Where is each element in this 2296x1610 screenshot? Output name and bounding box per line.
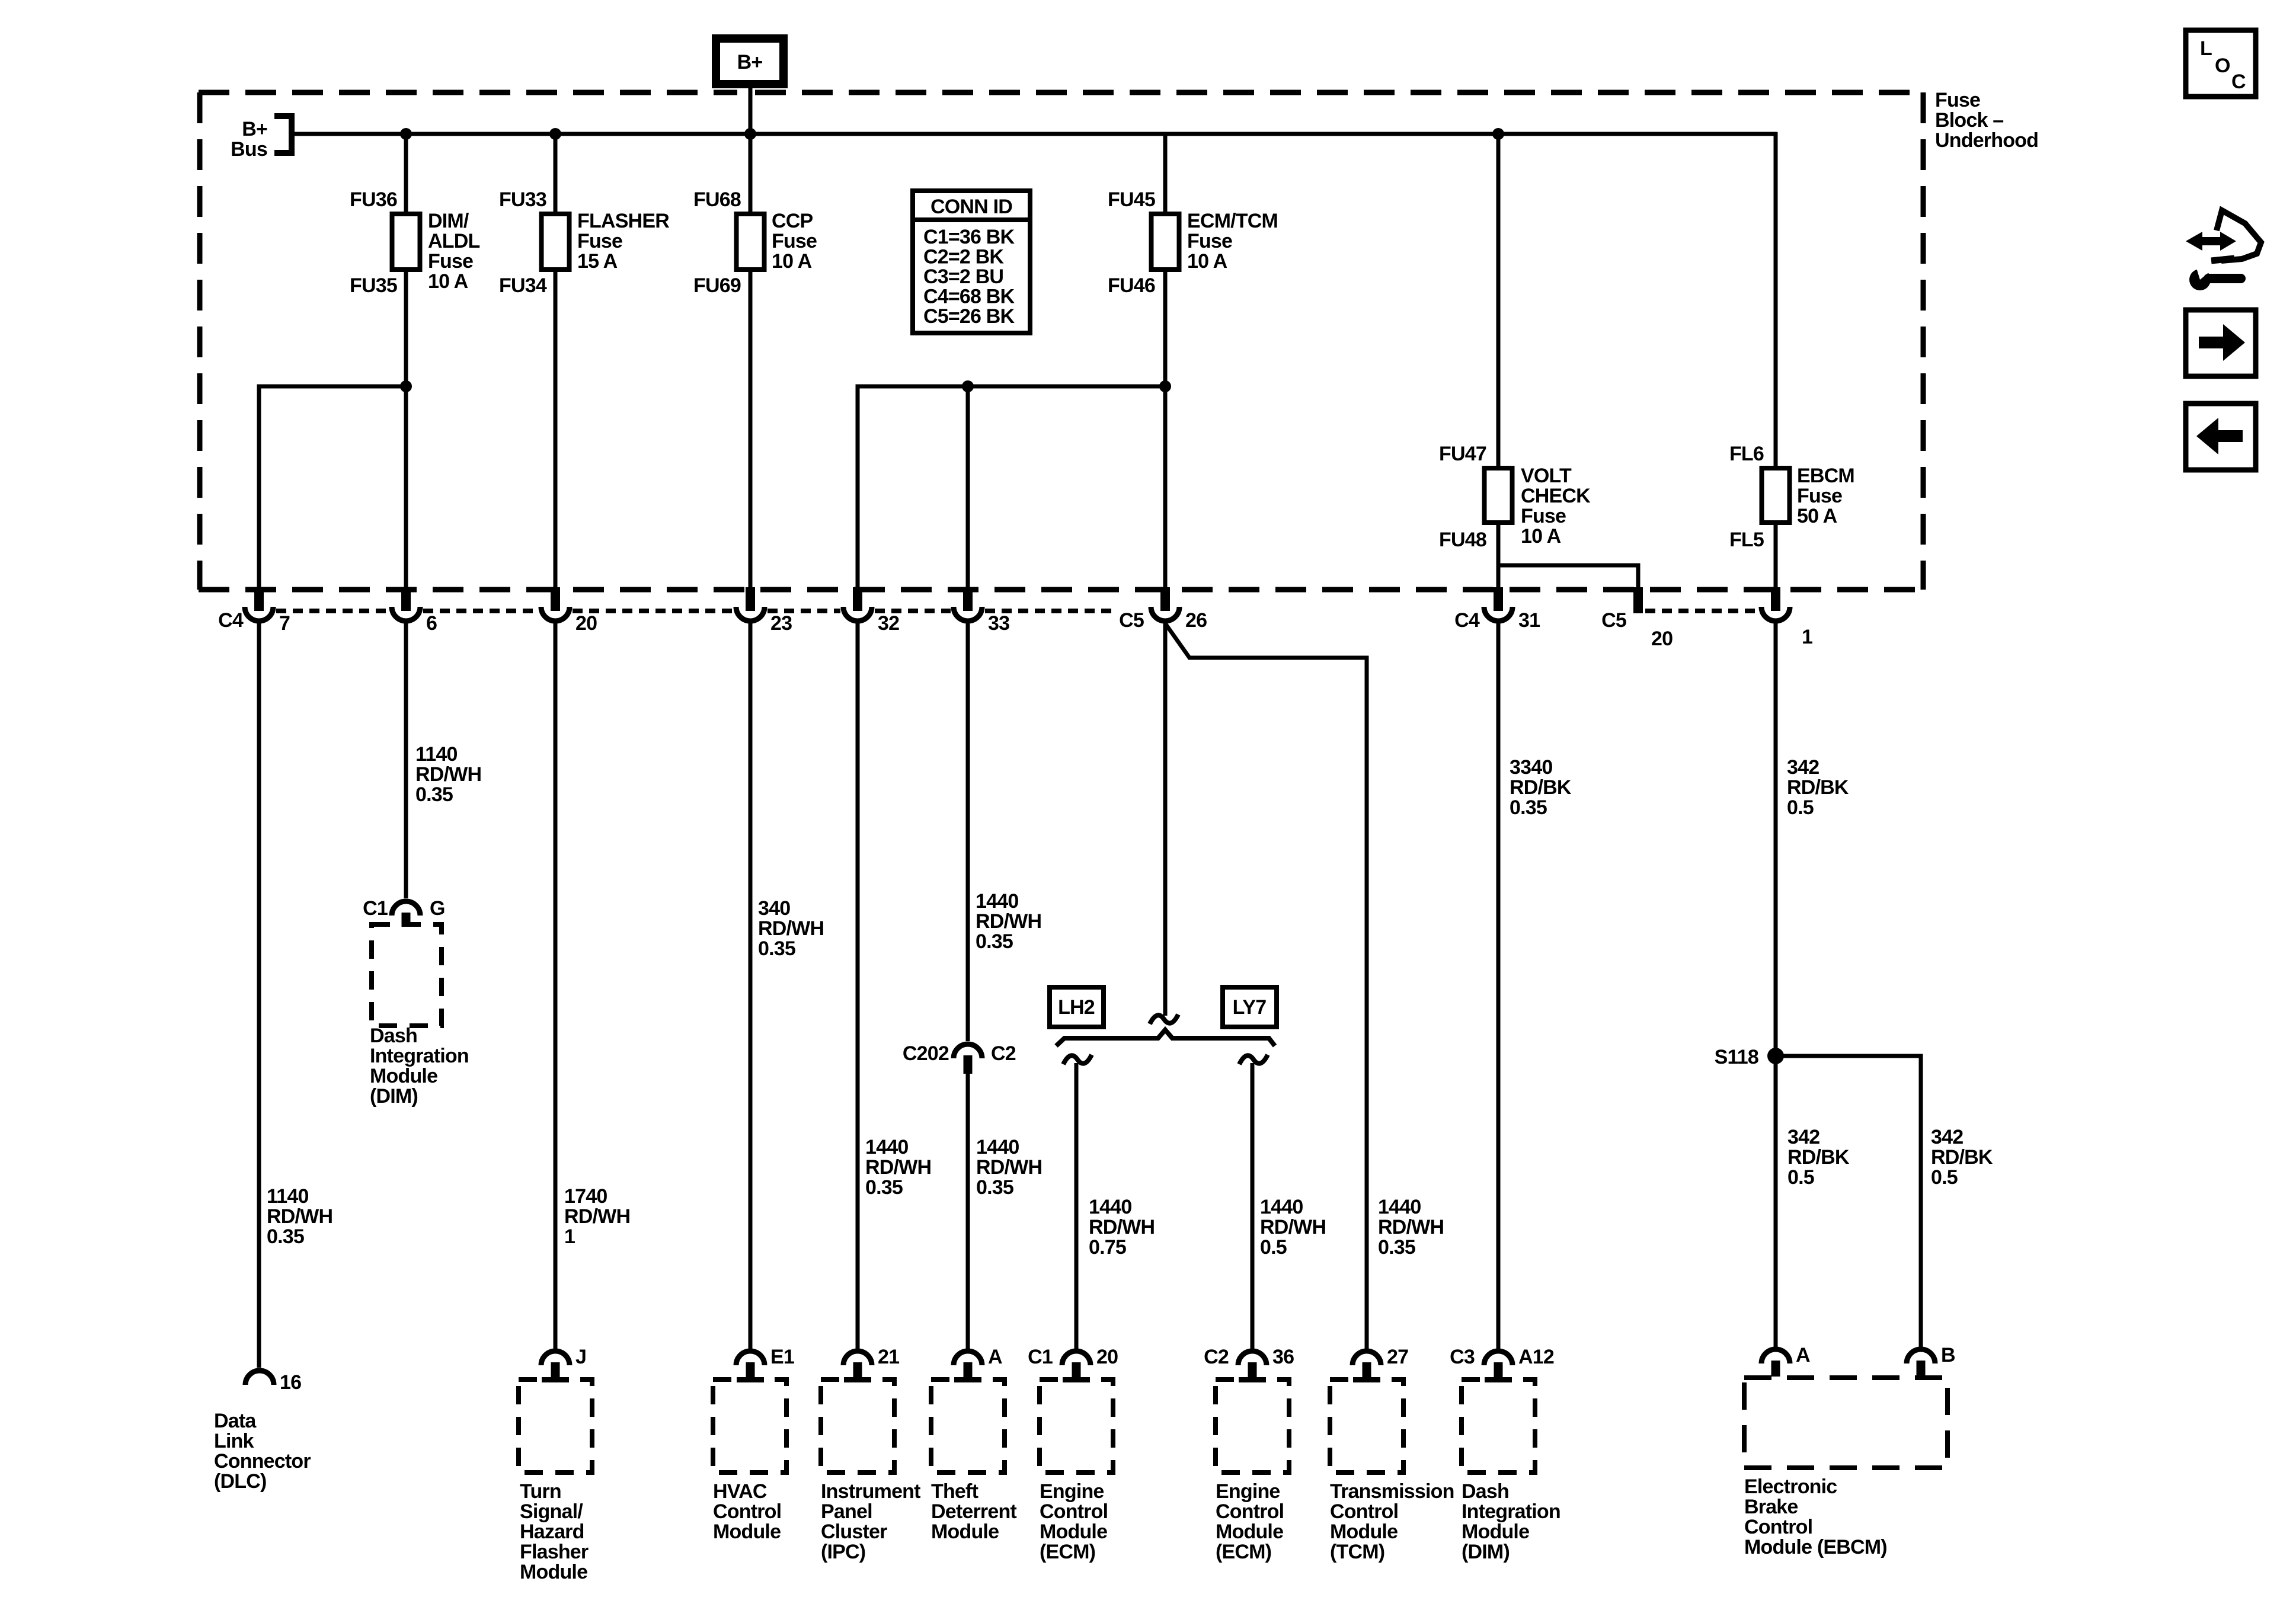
wire pin 33 riser bbox=[966, 386, 970, 590]
module Instrument Panel Cluster (IPC) dashed box bbox=[821, 1379, 894, 1473]
svg-text:C4: C4 bbox=[1454, 609, 1480, 632]
svg-text:Module: Module bbox=[713, 1521, 781, 1543]
svg-text:RD/WH: RD/WH bbox=[758, 917, 824, 940]
svg-text:ECM/TCM: ECM/TCM bbox=[1187, 210, 1278, 232]
fuse FU33/FU34 FLASHER 15 A bbox=[542, 214, 570, 270]
node junction FU46/IPC branch bbox=[1159, 380, 1171, 392]
svg-text:Transmission: Transmission bbox=[1330, 1480, 1454, 1503]
connector C5 pin 20 stub bbox=[1633, 587, 1643, 613]
wire S118 branch to pin B bbox=[1776, 1056, 1921, 1350]
connector C1 pin G bbox=[392, 901, 420, 916]
svg-text:C2: C2 bbox=[991, 1042, 1016, 1065]
wire connector C4 dashed id line bbox=[276, 609, 1114, 613]
wire pin 1 to S118 bbox=[1774, 621, 1778, 1350]
svg-text:Module: Module bbox=[1040, 1521, 1107, 1543]
module HVAC Control Module dashed box bbox=[713, 1379, 786, 1473]
svg-text:Bus: Bus bbox=[231, 138, 267, 161]
icon vehicle with wrench bbox=[2217, 210, 2261, 261]
wire pin 7 to DLC pin 16 bbox=[257, 621, 261, 1368]
svg-text:Fuse: Fuse bbox=[1935, 89, 1980, 111]
connector pin E1 bbox=[736, 1351, 765, 1365]
svg-text:Fuse: Fuse bbox=[772, 230, 817, 252]
svg-text:C1=36 BK: C1=36 BK bbox=[923, 226, 1015, 248]
option label LH2 box bbox=[1050, 987, 1104, 1027]
svg-text:0.35: 0.35 bbox=[976, 930, 1013, 953]
splice S118 bbox=[1767, 1048, 1784, 1064]
svg-text:10 A: 10 A bbox=[772, 250, 812, 273]
svg-text:VOLT: VOLT bbox=[1521, 465, 1572, 487]
wire bus to fuse FU68 bbox=[749, 134, 753, 214]
svg-text:C4: C4 bbox=[218, 609, 244, 632]
fuse FU36/FU35 DIM/ALDL 10 A bbox=[392, 214, 420, 270]
svg-text:31: 31 bbox=[1518, 609, 1540, 632]
svg-text:RD/WH: RD/WH bbox=[415, 763, 481, 786]
wire FU35 to pin 6 bbox=[404, 270, 408, 590]
svg-text:Control: Control bbox=[1330, 1500, 1398, 1523]
svg-text:(ECM): (ECM) bbox=[1216, 1541, 1271, 1563]
svg-text:342: 342 bbox=[1787, 756, 1819, 779]
svg-text:Engine: Engine bbox=[1216, 1480, 1280, 1503]
svg-text:0.5: 0.5 bbox=[1787, 1166, 1814, 1189]
svg-text:Brake: Brake bbox=[1744, 1496, 1798, 1518]
svg-text:0.35: 0.35 bbox=[865, 1176, 903, 1199]
connector pin A bbox=[1761, 1349, 1790, 1363]
svg-text:Cluster: Cluster bbox=[821, 1521, 887, 1543]
wire pin 6 to C1 G bbox=[404, 621, 408, 898]
svg-text:20: 20 bbox=[575, 612, 597, 635]
icon right arrow box bbox=[2186, 310, 2256, 376]
svg-text:340: 340 bbox=[758, 897, 790, 920]
svg-text:Module: Module bbox=[1330, 1521, 1398, 1543]
svg-text:C2: C2 bbox=[1204, 1346, 1229, 1368]
svg-text:0.35: 0.35 bbox=[415, 783, 453, 806]
svg-text:7: 7 bbox=[279, 612, 290, 635]
fuse FU47/FU48 VOLT CHECK 10 A bbox=[1485, 468, 1512, 523]
wire bus to fuse FU33 bbox=[554, 134, 558, 214]
svg-text:Dash: Dash bbox=[370, 1025, 417, 1047]
svg-text:Module: Module bbox=[1216, 1521, 1283, 1543]
connector C202 pin C2 bbox=[954, 1044, 982, 1058]
svg-text:Fuse: Fuse bbox=[1521, 505, 1566, 527]
svg-text:0.35: 0.35 bbox=[1510, 796, 1547, 819]
module Dash Integration Module (DIM) dashed box lower bbox=[1462, 1379, 1535, 1473]
svg-text:A12: A12 bbox=[1518, 1346, 1554, 1368]
fuse block dashed border bottom bbox=[199, 587, 1923, 593]
connector pin B bbox=[1907, 1349, 1935, 1363]
svg-text:Panel: Panel bbox=[821, 1500, 872, 1523]
svg-text:Fuse: Fuse bbox=[577, 230, 622, 252]
wire bus to fuse FU47 bbox=[1496, 134, 1501, 468]
svg-text:Electronic: Electronic bbox=[1744, 1475, 1837, 1498]
wire bus to fuse FU36 bbox=[404, 134, 408, 214]
svg-text:(DIM): (DIM) bbox=[1462, 1541, 1510, 1563]
svg-text:CHECK: CHECK bbox=[1521, 485, 1591, 507]
svg-text:1440: 1440 bbox=[865, 1136, 908, 1158]
svg-text:CCP: CCP bbox=[772, 210, 813, 232]
wire break squiggle main bbox=[1150, 1014, 1178, 1024]
svg-text:A: A bbox=[988, 1346, 1002, 1368]
svg-text:B+: B+ bbox=[737, 51, 763, 73]
svg-text:S118: S118 bbox=[1715, 1046, 1758, 1068]
module Engine Control Module (ECM) LY7 dashed box bbox=[1216, 1379, 1289, 1473]
module Turn Signal/Hazard Flasher Module dashed box bbox=[519, 1379, 592, 1473]
svg-text:Engine: Engine bbox=[1040, 1480, 1104, 1503]
svg-text:RD/WH: RD/WH bbox=[1378, 1216, 1444, 1238]
svg-text:RD/BK: RD/BK bbox=[1510, 776, 1572, 799]
svg-text:(DLC): (DLC) bbox=[214, 1470, 267, 1493]
wire pin 23 to E1 bbox=[749, 621, 753, 1350]
wire FU48 branch to C5 pin 20 bbox=[1498, 565, 1638, 590]
node junction bus/FU36 bbox=[400, 128, 412, 140]
wire pin 32 to 21 bbox=[856, 621, 860, 1350]
svg-text:HVAC: HVAC bbox=[713, 1480, 767, 1503]
CONN ID table box bbox=[913, 191, 1030, 333]
svg-text:26: 26 bbox=[1185, 609, 1207, 632]
svg-text:A: A bbox=[1796, 1344, 1810, 1366]
wire LY7 branch to C2 36 bbox=[1251, 1063, 1255, 1350]
svg-text:FU46: FU46 bbox=[1108, 274, 1155, 297]
svg-text:LH2: LH2 bbox=[1058, 996, 1095, 1019]
svg-text:0.35: 0.35 bbox=[758, 937, 795, 960]
node junction bus/FU47 bbox=[1492, 128, 1504, 140]
fuse FU45/FU46 ECM/TCM 10 A bbox=[1152, 214, 1179, 270]
svg-text:FU45: FU45 bbox=[1108, 188, 1155, 211]
svg-text:RD/WH: RD/WH bbox=[1089, 1216, 1155, 1238]
svg-text:FU34: FU34 bbox=[499, 274, 547, 297]
svg-text:C5: C5 bbox=[1119, 609, 1144, 632]
svg-text:J: J bbox=[575, 1346, 586, 1368]
svg-text:Deterrent: Deterrent bbox=[931, 1500, 1016, 1523]
svg-text:Module (EBCM): Module (EBCM) bbox=[1744, 1536, 1887, 1558]
svg-text:1140: 1140 bbox=[415, 743, 458, 766]
svg-text:C202: C202 bbox=[903, 1042, 949, 1065]
svg-text:C1: C1 bbox=[363, 897, 388, 920]
svg-text:FL6: FL6 bbox=[1729, 443, 1764, 465]
svg-text:C: C bbox=[2231, 71, 2246, 93]
svg-text:1440: 1440 bbox=[976, 1136, 1019, 1158]
module Dash Integration Module (DIM) dashed box bbox=[372, 924, 442, 1026]
svg-text:20: 20 bbox=[1651, 628, 1673, 650]
svg-text:0.35: 0.35 bbox=[267, 1225, 304, 1248]
svg-text:FU47: FU47 bbox=[1439, 443, 1486, 465]
node junction bus/FU68 bbox=[744, 128, 756, 140]
wire bus to fuse FU45 bbox=[1163, 134, 1168, 214]
svg-text:0.35: 0.35 bbox=[976, 1176, 1013, 1199]
connector C4 pin 32 bbox=[853, 587, 862, 611]
svg-text:ALDL: ALDL bbox=[428, 230, 479, 252]
svg-text:1140: 1140 bbox=[267, 1185, 309, 1208]
connector pin 21 bbox=[843, 1351, 872, 1365]
connector pin C2 36 bbox=[1238, 1351, 1267, 1365]
wire branch to DLC column bbox=[259, 386, 406, 590]
svg-text:RD/WH: RD/WH bbox=[865, 1156, 931, 1179]
wire B+ bus horizontal bbox=[294, 132, 1777, 136]
svg-text:Signal/: Signal/ bbox=[520, 1500, 583, 1523]
svg-text:Fuse: Fuse bbox=[1187, 230, 1232, 252]
wire FU46 to pin 26 bbox=[1163, 270, 1168, 590]
connector C4 pin 23 bbox=[746, 587, 755, 611]
svg-text:1440: 1440 bbox=[1260, 1196, 1303, 1218]
svg-text:Flasher: Flasher bbox=[520, 1541, 589, 1563]
svg-text:10 A: 10 A bbox=[1187, 250, 1227, 273]
fuse FU68/FU69 CCP 10 A bbox=[737, 214, 765, 270]
svg-text:RD/WH: RD/WH bbox=[976, 910, 1041, 933]
svg-text:Integration: Integration bbox=[1462, 1500, 1560, 1523]
svg-text:B: B bbox=[1941, 1344, 1955, 1366]
svg-text:0.5: 0.5 bbox=[1260, 1236, 1287, 1259]
connector pin 27 bbox=[1352, 1351, 1381, 1365]
svg-text:Hazard: Hazard bbox=[520, 1521, 584, 1543]
svg-text:FU68: FU68 bbox=[693, 188, 741, 211]
node B+ Bus bracket bbox=[274, 116, 292, 153]
svg-text:50 A: 50 A bbox=[1797, 505, 1837, 527]
wire FU48 to pin 31 bbox=[1496, 523, 1501, 590]
connector pin 1 bbox=[1771, 587, 1780, 611]
svg-text:(TCM): (TCM) bbox=[1330, 1541, 1384, 1563]
svg-text:DIM/: DIM/ bbox=[428, 210, 469, 232]
node junction bus/FU33 bbox=[549, 128, 561, 140]
connector C4 pin 31 bbox=[1494, 587, 1503, 611]
wire LH2 branch to C1 20 bbox=[1075, 1063, 1079, 1350]
svg-text:(ECM): (ECM) bbox=[1040, 1541, 1095, 1563]
svg-text:342: 342 bbox=[1931, 1126, 1963, 1148]
svg-text:C5=26 BK: C5=26 BK bbox=[923, 305, 1015, 328]
wire pin 26 branch to TCM bbox=[1165, 623, 1367, 1350]
svg-text:Theft: Theft bbox=[931, 1480, 978, 1503]
svg-text:Control: Control bbox=[713, 1500, 781, 1523]
svg-text:21: 21 bbox=[878, 1346, 899, 1368]
svg-text:(DIM): (DIM) bbox=[370, 1085, 418, 1108]
svg-text:36: 36 bbox=[1272, 1346, 1294, 1368]
svg-text:RD/BK: RD/BK bbox=[1787, 776, 1849, 799]
svg-text:Instrument: Instrument bbox=[821, 1480, 920, 1503]
svg-text:Dash: Dash bbox=[1462, 1480, 1509, 1503]
svg-text:C3: C3 bbox=[1450, 1346, 1475, 1368]
wire connector C5 dashed id line bbox=[1645, 609, 1758, 613]
svg-text:FU35: FU35 bbox=[350, 274, 397, 297]
svg-text:Module: Module bbox=[931, 1521, 999, 1543]
svg-text:L: L bbox=[2200, 37, 2212, 60]
svg-text:O: O bbox=[2215, 55, 2230, 77]
icon LOC box bbox=[2186, 30, 2256, 97]
wire pin 31 to C3 A12 bbox=[1496, 621, 1501, 1350]
svg-text:3340: 3340 bbox=[1510, 756, 1552, 779]
svg-text:RD/BK: RD/BK bbox=[1787, 1146, 1850, 1169]
svg-text:23: 23 bbox=[770, 612, 792, 635]
svg-text:6: 6 bbox=[426, 612, 437, 635]
connector C4 pin 6 bbox=[401, 587, 411, 611]
svg-text:10 A: 10 A bbox=[428, 270, 468, 293]
svg-text:Underhood: Underhood bbox=[1935, 129, 2038, 152]
svg-text:15 A: 15 A bbox=[577, 250, 618, 273]
svg-text:1: 1 bbox=[1802, 626, 1812, 648]
svg-text:RD/BK: RD/BK bbox=[1931, 1146, 1993, 1169]
svg-text:C2=2 BK: C2=2 BK bbox=[923, 246, 1004, 268]
svg-text:Module: Module bbox=[370, 1065, 437, 1087]
svg-text:Module: Module bbox=[1462, 1521, 1529, 1543]
svg-text:G: G bbox=[430, 897, 445, 920]
svg-text:1: 1 bbox=[564, 1225, 575, 1248]
connector pin J bbox=[541, 1351, 570, 1365]
svg-text:Control: Control bbox=[1744, 1516, 1812, 1538]
fuse block Fuse Block - Underhood dashed border top bbox=[199, 90, 1923, 95]
svg-text:16: 16 bbox=[280, 1371, 301, 1394]
fuse block dashed border left bbox=[197, 92, 203, 590]
node junction branch/pin33 bbox=[962, 380, 974, 392]
module Theft Deterrent Module dashed box bbox=[931, 1379, 1005, 1473]
connector C4 pin 20 bbox=[551, 587, 560, 611]
svg-text:C1: C1 bbox=[1028, 1346, 1053, 1368]
svg-text:C4=68 BK: C4=68 BK bbox=[923, 286, 1015, 308]
svg-text:Control: Control bbox=[1040, 1500, 1108, 1523]
svg-text:0.35: 0.35 bbox=[1378, 1236, 1415, 1259]
svg-text:32: 32 bbox=[878, 612, 899, 635]
fuse FL6/FL5 EBCM 50 A bbox=[1762, 468, 1790, 523]
svg-text:EBCM: EBCM bbox=[1797, 465, 1854, 487]
option label LY7 box bbox=[1223, 987, 1277, 1027]
svg-text:CONN ID: CONN ID bbox=[930, 196, 1012, 218]
svg-text:C5: C5 bbox=[1601, 609, 1626, 632]
wire B+ box to bus bbox=[749, 84, 753, 134]
wire pin 26 down to engine option split bbox=[1163, 621, 1168, 1016]
engine option brace bbox=[1056, 1030, 1275, 1046]
module Electronic Brake Control Module (EBCM) dashed box bbox=[1744, 1378, 1948, 1468]
svg-text:1440: 1440 bbox=[1378, 1196, 1421, 1218]
svg-text:E1: E1 bbox=[770, 1346, 794, 1368]
wire pin 20 to J bbox=[554, 621, 558, 1350]
connector C5 pin 26 bbox=[1160, 587, 1170, 611]
svg-text:27: 27 bbox=[1387, 1346, 1408, 1368]
connector pin A bbox=[954, 1351, 982, 1365]
svg-text:Data: Data bbox=[214, 1410, 257, 1432]
connector DLC pin 16 bbox=[245, 1371, 274, 1385]
module Engine Control Module (ECM) LH2 dashed box bbox=[1040, 1379, 1113, 1473]
svg-text:FU48: FU48 bbox=[1439, 529, 1486, 551]
svg-text:0.5: 0.5 bbox=[1787, 796, 1814, 819]
svg-text:1440: 1440 bbox=[976, 890, 1018, 913]
svg-text:20: 20 bbox=[1096, 1346, 1118, 1368]
wire FL5 to pin 1 bbox=[1774, 523, 1778, 590]
svg-text:Control: Control bbox=[1216, 1500, 1284, 1523]
svg-text:B+: B+ bbox=[242, 118, 267, 140]
wire pin 33 to C202 bbox=[966, 621, 970, 1041]
svg-text:342: 342 bbox=[1787, 1126, 1819, 1148]
connector pin C3 A12 bbox=[1484, 1351, 1512, 1365]
connector pin C1 20 bbox=[1062, 1351, 1091, 1365]
svg-text:0.75: 0.75 bbox=[1089, 1236, 1126, 1259]
svg-text:0.5: 0.5 bbox=[1931, 1166, 1958, 1189]
node junction FU35/DLC branch bbox=[400, 380, 412, 392]
wire branch to IPC and Theft columns bbox=[858, 386, 1165, 590]
svg-text:Fuse: Fuse bbox=[428, 250, 473, 273]
svg-text:RD/WH: RD/WH bbox=[267, 1205, 332, 1228]
svg-text:FU36: FU36 bbox=[350, 188, 397, 211]
svg-text:RD/WH: RD/WH bbox=[564, 1205, 630, 1228]
wire C202 to pin A bbox=[966, 1073, 970, 1350]
svg-text:(IPC): (IPC) bbox=[821, 1541, 865, 1563]
connector C4 pin 7 bbox=[254, 587, 264, 611]
svg-text:C3=2 BU: C3=2 BU bbox=[923, 265, 1003, 288]
svg-text:FL5: FL5 bbox=[1729, 529, 1764, 551]
fuse block dashed border right bbox=[1921, 92, 1926, 590]
svg-text:1740: 1740 bbox=[564, 1185, 607, 1208]
svg-text:FU69: FU69 bbox=[693, 274, 741, 297]
wire FU34 to pin 20 bbox=[554, 270, 558, 590]
svg-text:Connector: Connector bbox=[214, 1450, 311, 1473]
svg-text:Module: Module bbox=[520, 1561, 587, 1583]
wire bus corner to fuse FL6 bbox=[1774, 132, 1778, 468]
connector C4 pin 33 bbox=[963, 587, 973, 611]
svg-text:RD/WH: RD/WH bbox=[976, 1156, 1042, 1179]
B+ power terminal box bbox=[716, 39, 784, 84]
wire FU69 to pin 23 bbox=[749, 270, 753, 590]
svg-text:33: 33 bbox=[988, 612, 1009, 635]
wire break squiggle LY7 branch bbox=[1239, 1055, 1268, 1064]
wire break squiggle LH2 branch bbox=[1063, 1055, 1092, 1064]
icon left arrow box bbox=[2186, 404, 2256, 470]
svg-text:FLASHER: FLASHER bbox=[577, 210, 669, 232]
svg-text:Integration: Integration bbox=[370, 1045, 469, 1067]
svg-text:FU33: FU33 bbox=[499, 188, 546, 211]
svg-text:LY7: LY7 bbox=[1233, 996, 1267, 1019]
svg-text:Link: Link bbox=[214, 1430, 254, 1452]
svg-text:1440: 1440 bbox=[1089, 1196, 1131, 1218]
svg-text:RD/WH: RD/WH bbox=[1260, 1216, 1326, 1238]
module Transmission Control Module (TCM) dashed box bbox=[1330, 1379, 1403, 1473]
svg-text:Turn: Turn bbox=[520, 1480, 561, 1503]
svg-text:10 A: 10 A bbox=[1521, 525, 1561, 548]
svg-text:Fuse: Fuse bbox=[1797, 485, 1842, 507]
svg-text:Block –: Block – bbox=[1935, 109, 2003, 132]
